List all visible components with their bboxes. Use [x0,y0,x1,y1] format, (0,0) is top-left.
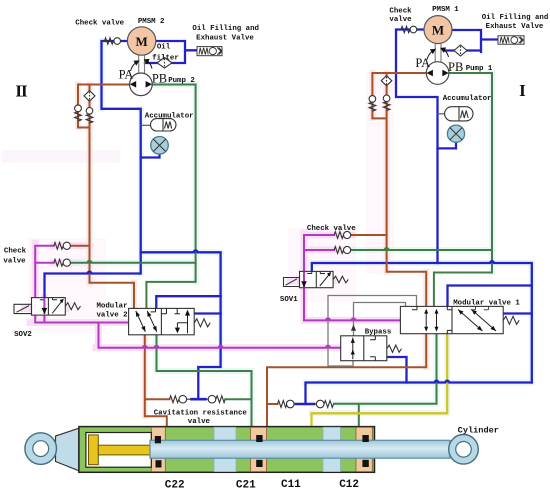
svg-text:C21: C21 [236,480,256,492]
svg-text:PMSM 2: PMSM 2 [138,18,165,26]
svg-text:valve 2: valve 2 [96,312,127,320]
wire green: cavitation left link [225,398,251,400]
bypass valve internals [351,336,376,361]
check valve top-right (suction M1) [401,26,417,33]
svg-text:PA: PA [415,56,430,70]
motor M2 (PMSM 2) [127,27,155,55]
halo cyan green/blue lines [70,41,532,427]
modular valve 1 internals [412,306,496,333]
check valve right mid 1 [334,231,351,238]
wire violet: SOV2 bottom stubs and pilot line to valve2 [35,314,129,323]
svg-text:PMSM 1: PMSM 1 [432,6,459,14]
cylinder divider D2 [323,427,340,471]
wire violet: long pilot line to bypass valve [99,323,341,348]
wire blue: gauge circle 2 elbow [141,152,160,158]
svg-text:Modular: Modular [96,303,127,311]
glow SOV2 area [28,238,106,332]
wire blue: right horizontal to SOV1 and down to bus [312,263,532,383]
svg-text:Oil Filling and: Oil Filling and [482,14,549,22]
modular valve 2 [129,308,211,334]
cylinder port square C21 bottom [256,460,262,467]
svg-text:M: M [135,34,147,49]
wire brown: pump2 A-port to check branch and down to valve2 [78,85,134,310]
cylinder left eye outer [25,433,57,465]
wire blue: left suction check line from motor M2 to SOV2 [45,41,141,298]
cylinder port band C12 [356,427,372,471]
cylinder port square C22 bottom [156,460,162,467]
hop green over brown left [87,260,93,263]
pump2 shaft [139,55,145,73]
cavitation check valve right WO [278,400,297,408]
svg-text:Cavitation resistance: Cavitation resistance [154,409,248,417]
svg-text:M: M [432,22,444,37]
svg-text:C22: C22 [165,480,185,492]
wire blue: valve1 right side link [503,312,532,314]
wire brown: valve1 bottom to cylinder C11 and cavitation branch [267,334,426,428]
wire brown: valve2 bottom to cylinder C22 and cavitation branch [145,335,170,428]
wire blue: motor M2 right to oil filling valve and filter [145,41,197,63]
hop green over brown right [384,247,390,250]
filter diamond left branch B [84,91,95,102]
svg-text:filter: filter [152,54,179,62]
wire brown: left mid check valve tail [70,245,89,247]
cylinder divider D1 [214,427,236,471]
jpeg artifact halos (decorative tinting kept as labelled glow layer) [2,41,532,427]
pump2 variable arrows [131,60,153,72]
cylinder right eye hole [456,442,472,458]
glow right brown column [366,72,394,274]
wire grey: inner pilot frame bypass to valve1 [354,303,406,337]
solenoid valve SOV2 [14,298,81,316]
check valve vertical right branch B [383,95,390,111]
motor M1 (PMSM 1) [424,16,452,44]
svg-text:Oil Filling and: Oil Filling and [192,25,259,33]
hop blue over green at pump2 line [193,249,199,252]
hop purple over brown at valve2 [142,345,148,348]
hop blue bus over green [434,380,440,383]
gauge circle 2 [151,137,169,155]
svg-text:Pump 1: Pump 1 [466,65,493,73]
svg-text:Exhaust Valve: Exhaust Valve [486,23,544,31]
cylinder right eye outer [449,435,479,465]
cylinder port band C21/C11 [251,427,267,471]
cylinder body [79,427,375,473]
wire blue: valve2 right side link [194,312,220,314]
svg-text:valve: valve [188,418,211,426]
wire brown: pump1 A-port to check branch and down to valve1 [372,73,426,309]
svg-text:Pump 2: Pump 2 [168,77,195,85]
hop blue over green at pump1 line [489,260,495,263]
wire violet: right check valves through SOV1 to valve1 pilot [304,235,400,320]
svg-text:SOV2: SOV2 [14,331,32,339]
SOV2 internals [40,298,64,315]
halo brown left vertical [78,85,145,417]
label PA PB left [119,56,464,86]
svg-text:PB: PB [448,60,463,74]
grey pilot arrow above bypass [351,325,356,331]
svg-text:C12: C12 [339,479,359,491]
bypass valve [341,336,402,361]
crossing hops [87,247,496,383]
wire yellow: valve1 bottom to cylinder [312,334,448,428]
cylinder bore chamber [86,433,151,468]
cylinder port square C12 top [362,435,368,442]
cylinder piston [89,435,99,465]
check valve vertical right branch A [369,96,376,112]
oil filling and exhaust valve left [197,47,222,56]
cylinder port square C21 top [256,435,262,442]
svg-text:PA: PA [119,68,134,82]
svg-text:C11: C11 [281,479,301,491]
wire green: pump2 B-port down and into valve2 [146,85,195,310]
halo violet right net [290,233,400,320]
wire blue: motor M1 right to oil filling valve and filter [445,30,498,52]
check valve vertical left branch B [86,108,93,124]
modular valve 2 internals [136,308,190,333]
glow SOV1 area [288,228,356,302]
wire blue: gauge circle 1 elbow [438,141,457,148]
cavitation check valve left OW [206,395,226,403]
hop purple over green at valve2 [154,345,160,348]
svg-text:Accumulator: Accumulator [443,95,492,103]
filter diamond right branch B [381,76,392,86]
wire grey: outer pilot frame bypass to valve1 [328,296,417,367]
wire blue: valve1 top port jog [448,286,532,310]
svg-text:Modular valve 1: Modular valve 1 [453,299,520,307]
svg-text:Exhaust Valve: Exhaust Valve [196,34,254,42]
wire green: left mid check valve long line [70,262,195,264]
halo violet left net [24,243,340,348]
modular valve 1 [400,306,519,333]
svg-text:valve: valve [3,258,26,266]
cylinder port square C12 bottom [362,460,368,467]
check valve top-left (suction M2) [105,38,121,45]
hop blue over brown left [87,271,93,274]
wire blue: valve2 top entry jog [156,296,220,309]
svg-text:valve: valve [389,16,412,24]
pump 1 [426,62,449,85]
oil filling and exhaust valve right [498,36,524,44]
svg-text:PB: PB [152,72,167,86]
hop purple over grey outer [325,345,331,348]
svg-text:Check valve: Check valve [307,225,356,233]
svg-text:Bypass: Bypass [365,329,392,337]
cylinder port band C22 [151,427,165,471]
oil filter diamond left [157,58,172,69]
cylinder left eye hole [33,441,49,457]
hop purple pilot over grey [325,317,331,320]
wire green: right mid check valve long line [352,249,492,251]
svg-text:Oil: Oil [157,44,171,52]
accumulator 2 [151,119,177,131]
solenoid valve SOV1 [284,271,349,287]
svg-text:Check valve: Check valve [75,19,124,27]
oil filter diamond right [454,45,467,56]
svg-text:Check: Check [389,7,412,15]
wire blue: branch to valve2 right vertical and cavitation valve left [141,252,221,399]
cavitation check valve left WO [170,395,192,403]
cylinder left clevis trapezoid [56,428,79,471]
check valve right mid 2 [334,246,351,253]
pump1 variable arrows [427,48,449,60]
wire violet: left check valves to SOV2 top [35,246,54,298]
check valve left mid 2 [54,259,71,266]
svg-text:Cylinder: Cylinder [458,425,499,435]
hop purple over blue mid [218,345,224,348]
cylinder port square C22 top [155,436,161,443]
pump1 shaft [435,44,441,62]
wire blue: bypass valve right link to bus [387,357,407,383]
faint artifact smudge left [2,150,120,163]
hop purple pilot over grey inner [351,317,357,320]
gauge circle 1 [447,125,464,142]
cylinder piston rod yellow [98,445,150,455]
pump 2 [130,73,153,96]
check valve left mid 1 [54,242,71,249]
cavitation check valve right OW [314,400,333,408]
wire green: valve1 bottom to cylinder C12 and cavitation right [334,334,437,428]
svg-text:Check: Check [4,247,27,255]
cylinder assembly [25,427,478,473]
SOV1 internals [301,271,331,287]
wire green: valve2 bottom to cylinder C21 [157,335,252,428]
wire blue: bottom bus [306,383,532,405]
svg-text:SOV1: SOV1 [280,296,298,304]
svg-text:Accumulator: Accumulator [145,112,194,120]
wire blue: accumulator 2 tap [141,124,150,126]
wire blue: accumulator 1 tap [438,113,445,115]
svg-text:I: I [519,81,526,100]
wire blue: cavitation T bar left [192,398,206,401]
wire brown: right mid check valve tail [352,234,387,236]
wire green: pump1 B-port down and into valve1 [434,73,492,309]
check valve vertical left branch A [75,105,82,121]
accumulator 1 [445,107,473,121]
svg-text:II: II [15,82,28,101]
wire blue: cavitation T bar right [296,403,314,406]
halo brown right vertical [372,73,426,367]
wire blue: right suction check line from motor M1 [396,30,438,264]
hop blue bus over yellow [444,380,450,383]
